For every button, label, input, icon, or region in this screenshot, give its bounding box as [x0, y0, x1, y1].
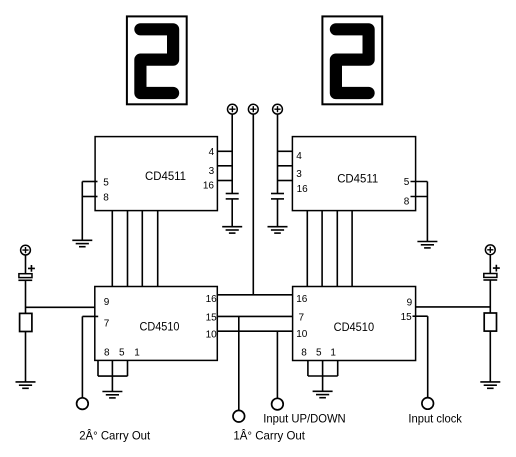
U1 pin 3 stub	[209, 166, 233, 177]
svg-text:CD4510: CD4510	[140, 321, 180, 333]
wire updown drop	[276, 331, 278, 398]
wire P4 to C3	[25, 255, 27, 274]
svg-text:8: 8	[104, 348, 110, 359]
capacitor C4 polarized	[483, 274, 497, 281]
wire U1-U3 data 1	[111, 211, 113, 287]
svg-text:10: 10	[296, 329, 308, 340]
svg-text:16: 16	[297, 184, 309, 195]
display DS1 box	[127, 16, 187, 104]
display DS1 digit 2	[140, 29, 173, 93]
capacitor C3 polarized	[18, 274, 32, 281]
svg-text:5: 5	[103, 178, 109, 189]
wire U1-U3 data 3	[141, 211, 143, 287]
svg-text:Input clock: Input clock	[408, 411, 462, 425]
wire R2 to ground	[489, 331, 491, 382]
IC U4 CD4510 box	[293, 287, 416, 361]
U3 pin 7 stub	[82, 316, 109, 329]
ground under C2	[268, 227, 288, 233]
wire C1 to ground	[231, 199, 233, 227]
power symbol P2	[248, 104, 258, 114]
U1 pin 16 stub	[203, 181, 232, 192]
IC U3 CD4510 box	[95, 287, 218, 361]
U2 pin 3 stub	[278, 166, 303, 180]
power symbol P4	[21, 245, 31, 255]
wire net 10-10	[217, 330, 292, 332]
power symbol P3	[273, 104, 283, 114]
svg-text:CD4511: CD4511	[145, 171, 186, 183]
wire U1-U3 data 2	[127, 211, 129, 287]
svg-text:8: 8	[404, 197, 410, 208]
U1 pin 5 stub	[82, 178, 109, 189]
U3 pin 16 stub	[206, 294, 218, 305]
svg-text:15: 15	[401, 312, 413, 323]
wire VCC line right	[277, 114, 279, 193]
terminal input updown	[272, 398, 284, 410]
display DS2 box	[322, 16, 382, 104]
svg-text:8: 8	[103, 193, 109, 204]
wire U4 bracket pins 8-5-1	[308, 361, 338, 392]
IC U1 CD4511 box	[95, 137, 217, 211]
svg-text:10: 10	[206, 330, 218, 341]
svg-text:7: 7	[299, 312, 305, 323]
ground under U3 bracket	[102, 392, 122, 398]
U2 pin 8 stub	[404, 197, 428, 208]
svg-text:5: 5	[316, 348, 322, 359]
wire U1-U3 data 4	[157, 211, 159, 287]
plus label C3	[28, 265, 35, 272]
wire power P2 to bus	[252, 114, 254, 295]
U3 pin 15 stub	[206, 312, 218, 323]
svg-text:16: 16	[296, 294, 308, 305]
svg-text:7: 7	[104, 319, 110, 330]
display DS2 digit 2	[336, 29, 369, 93]
wire U4 pin 9 net	[416, 306, 491, 308]
U3 pin 10 stub	[206, 330, 218, 341]
wire U2 pins 5-8 to ground	[426, 182, 428, 242]
U2 pin 4 stub	[278, 151, 303, 162]
wire U3 pin 7 to terminal	[81, 316, 83, 397]
wire R1 to ground	[25, 332, 27, 382]
wire carry1 drop	[238, 316, 240, 410]
ground under R1	[16, 382, 36, 388]
svg-text:5: 5	[119, 348, 125, 359]
wire U4 pin 15 to terminal	[427, 316, 429, 397]
wire U2-U4 data 2	[321, 211, 323, 287]
wire U3 bracket pins 8-5-1	[98, 360, 128, 391]
wire C4 to R2	[489, 280, 491, 313]
U4 pin 15 stub	[401, 312, 428, 323]
svg-text:4: 4	[296, 151, 302, 162]
ground under U1	[72, 240, 92, 246]
svg-text:9: 9	[104, 297, 110, 308]
plus label C4	[493, 265, 500, 272]
svg-text:1: 1	[330, 348, 336, 359]
IC U2 CD4511 box	[292, 137, 415, 211]
wire net 16-16	[217, 294, 292, 296]
svg-text:4: 4	[209, 147, 215, 158]
wire U2-U4 data 4	[351, 211, 353, 287]
wire U2-U4 data 3	[336, 211, 338, 287]
svg-text:CD4511: CD4511	[337, 174, 378, 186]
svg-text:Input UP/DOWN: Input UP/DOWN	[263, 412, 346, 426]
wire U3 pin 9 net	[26, 306, 96, 308]
resistor R2	[484, 313, 496, 331]
svg-text:1Â° Carry Out: 1Â° Carry Out	[233, 428, 305, 443]
svg-text:15: 15	[206, 312, 218, 323]
svg-text:3: 3	[209, 166, 215, 177]
resistor R1	[20, 313, 32, 331]
svg-text:8: 8	[301, 348, 307, 359]
svg-text:CD4510: CD4510	[334, 322, 375, 334]
ground under R2	[480, 382, 500, 388]
terminal 1deg carry out	[233, 410, 245, 422]
svg-text:1: 1	[134, 348, 140, 359]
capacitor C2	[271, 194, 284, 199]
wire net 15-7	[217, 315, 292, 317]
ground under U4 bracket	[313, 391, 333, 397]
terminal input clock	[422, 398, 434, 410]
ground under U2	[417, 242, 437, 248]
svg-text:9: 9	[407, 297, 413, 308]
wire P5 to C4	[489, 255, 491, 274]
wire U1 pins 5-8 to ground	[81, 182, 83, 241]
wire C3 to R1	[25, 280, 27, 313]
terminal 2deg carry out	[77, 398, 89, 410]
svg-text:16: 16	[206, 294, 218, 305]
U2 pin 5 stub	[404, 177, 428, 188]
U2 pin 16 stub	[278, 181, 309, 195]
ground under C1	[222, 227, 242, 233]
wire U2-U4 data 1	[306, 211, 308, 287]
svg-text:2Â° Carry Out: 2Â° Carry Out	[79, 428, 151, 443]
power symbol P1	[228, 104, 238, 114]
U1 pin 8 stub	[82, 193, 109, 204]
svg-text:16: 16	[203, 181, 215, 192]
capacitor C1	[226, 194, 239, 199]
wire VCC line left	[231, 114, 233, 193]
svg-text:3: 3	[296, 169, 302, 180]
wire C2 to ground	[277, 199, 279, 227]
power symbol P5	[485, 245, 495, 255]
U1 pin 4 stub	[209, 147, 233, 158]
svg-text:5: 5	[404, 177, 410, 188]
